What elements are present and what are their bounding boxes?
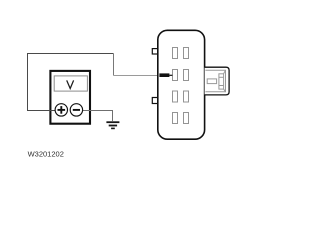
voltmeter display window (54, 76, 87, 91)
pin slot row3 col1 (173, 91, 178, 102)
connector latch inner outline (205, 70, 225, 92)
wire: vertical drop to leader (113, 54, 115, 76)
ground (106, 121, 119, 129)
pin slot row1 col1 (173, 48, 178, 59)
test probe arrow at pin row2 col1 (159, 73, 172, 77)
connector upper mounting tab (152, 49, 159, 54)
pin slot row2 col1 (probed pin) (173, 70, 178, 81)
svg-text:W3201202: W3201202 (28, 150, 64, 159)
pin slot row1 col2 (184, 48, 189, 59)
voltmeter V label (67, 80, 74, 88)
wire: voltmeter + terminal loop (left vertical and top run) (28, 54, 114, 111)
latch slot detail (207, 79, 216, 84)
connector latch housing outer (205, 67, 230, 95)
wire: gray leader to connector pin arrow (114, 75, 159, 77)
pin slot row2 col2 (184, 70, 189, 81)
pin slot row4 col1 (173, 113, 178, 124)
connector lower mounting tab (152, 98, 159, 104)
wire: right stub from - terminal to ground (83, 111, 113, 122)
pin slot row4 col2 (184, 113, 189, 124)
voltmeter + terminal (55, 104, 67, 116)
wire: left stub into + terminal (27, 110, 56, 112)
connector C1 body (158, 30, 205, 139)
voltmeter V1 box (50, 71, 90, 124)
voltmeter - terminal (70, 104, 82, 116)
pin slot row3 col2 (184, 91, 189, 102)
latch clip detail (219, 70, 226, 92)
